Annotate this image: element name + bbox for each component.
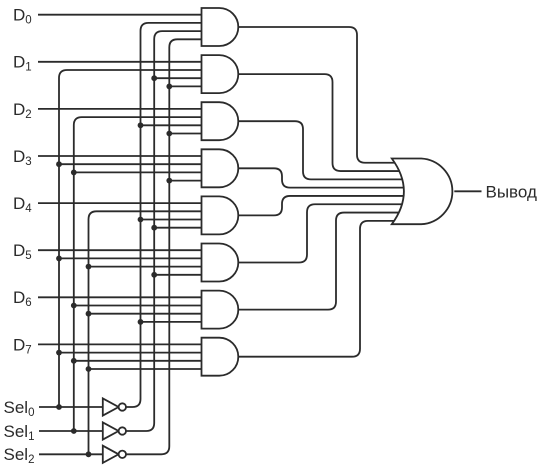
- AND gate U2 (D1 term): [202, 55, 239, 93]
- wire D2 input line: [38, 108, 203, 110]
- wire ~Sel0 branch to AND gate U7 input 4: [141, 321, 204, 323]
- wire Sel1 vertical trunk to top branch: [74, 117, 203, 431]
- junction Sel1 branch to U8: [71, 358, 77, 364]
- OR gate U9: [392, 159, 453, 225]
- AND gate U8 (D7 term): [202, 338, 239, 376]
- wire Sel2 branch to AND gate U8 input 4: [89, 368, 204, 370]
- junction ~Sel0 branch to U3: [138, 122, 144, 128]
- junction Sel0 branch to U8: [56, 350, 62, 356]
- wire ~Sel1 branch to AND gate U5 input 4: [154, 227, 203, 229]
- svg-text:Вывод: Вывод: [486, 182, 537, 201]
- junction Sel2 tap: [86, 451, 92, 457]
- svg-text:D2: D2: [13, 100, 32, 121]
- wire inverted Sel2 (~Sel2) trunk from inverter output to top branch: [126, 39, 203, 454]
- svg-text:Sel2: Sel2: [4, 445, 35, 466]
- junction Sel1 branch to U7: [71, 303, 77, 309]
- junction ~Sel1 branch to U5: [151, 225, 157, 231]
- junction ~Sel2 branch to U3: [166, 131, 172, 137]
- wire AND U7 output to OR input 7: [238, 213, 403, 310]
- wire ~Sel1 branch to AND gate U2 input 3: [154, 77, 203, 79]
- wire D5 input line: [38, 249, 203, 251]
- junction Sel2 branch to U8: [86, 366, 92, 372]
- wire AND U6 output to OR input 6: [238, 204, 403, 262]
- wire Sel0 vertical trunk to top branch: [59, 70, 203, 407]
- svg-text:D3: D3: [13, 147, 32, 168]
- wire Sel0 branch to AND gate U6 input 2: [59, 257, 203, 259]
- wire Sel1 branch to AND gate U7 input 2: [74, 305, 203, 307]
- AND gate U1 (D0 term): [202, 8, 239, 46]
- wire ~Sel2 branch to AND gate U4 input 4: [169, 180, 203, 182]
- wire ~Sel2 branch to AND gate U2 input 4: [169, 85, 203, 87]
- junction ~Sel2 branch to U2: [166, 84, 172, 90]
- wire D6 input line: [38, 296, 203, 298]
- wire AND U1 output to OR input 1: [238, 27, 403, 163]
- AND gate U7 (D6 term): [202, 291, 239, 329]
- wire D7 input line: [38, 343, 203, 345]
- wire OR output to label: [454, 190, 481, 192]
- inverter U12 (NOT Sel2): [103, 446, 126, 463]
- wire Sel1 input line: [39, 430, 104, 432]
- wire Sel2 branch to AND gate U7 input 3: [89, 313, 204, 315]
- junction Sel0 branch to U6: [56, 256, 62, 262]
- junction ~Sel0 branch to U5: [138, 217, 144, 223]
- svg-text:D7: D7: [13, 335, 32, 356]
- wire Sel1 branch to AND gate U8 input 3: [74, 360, 203, 362]
- wire ~Sel2 branch to AND gate U3 input 4: [169, 133, 203, 135]
- wire Sel2 vertical trunk to top branch: [89, 211, 204, 454]
- svg-text:Sel0: Sel0: [4, 398, 35, 419]
- wire Sel0 branch to AND gate U8 input 2: [59, 352, 203, 354]
- wire ~Sel1 branch to AND gate U6 input 4: [154, 274, 203, 276]
- AND gate U4 (D3 term): [202, 149, 239, 187]
- junction Sel2 branch to U6: [86, 264, 92, 270]
- junction ~Sel2 branch to U4: [166, 178, 172, 184]
- wire D0 input line: [38, 14, 203, 16]
- junction ~Sel1 branch to U2: [151, 75, 157, 81]
- AND gate U3 (D2 term): [202, 102, 239, 140]
- junction ~Sel0 branch to U7: [138, 319, 144, 325]
- wire D1 input line: [38, 61, 203, 63]
- wire D4 input line: [38, 202, 203, 204]
- svg-text:D0: D0: [13, 6, 32, 27]
- wire AND U5 output to OR input 5: [238, 196, 403, 215]
- junction ~Sel1 branch to U6: [151, 272, 157, 278]
- wire D3 input line: [38, 155, 203, 157]
- svg-text:D6: D6: [13, 288, 32, 309]
- wire inverted Sel1 (~Sel1) trunk from inverter output to top branch: [126, 31, 203, 431]
- svg-text:Sel1: Sel1: [4, 422, 35, 443]
- junction Sel2 branch to U7: [86, 311, 92, 317]
- wire Sel2 branch to AND gate U6 input 3: [89, 266, 204, 268]
- junction Sel0 branch to U4: [56, 161, 62, 167]
- wire AND U3 output to OR input 3: [238, 121, 403, 179]
- wire ~Sel0 branch to AND gate U3 input 3: [141, 124, 204, 126]
- wire Sel0 input line: [39, 406, 104, 408]
- wire AND U4 output to OR input 4: [238, 168, 403, 187]
- wire Sel0 branch to AND gate U4 input 2: [59, 163, 203, 165]
- junction Sel1 branch to U4: [71, 170, 77, 176]
- wire AND U2 output to OR input 2: [238, 74, 403, 171]
- inverter U10 (NOT Sel0): [103, 398, 126, 415]
- wire Sel1 branch to AND gate U4 input 3: [74, 171, 203, 173]
- wire Sel2 input line: [39, 453, 104, 455]
- svg-text:D5: D5: [13, 241, 32, 262]
- wire ~Sel0 branch to AND gate U5 input 3: [141, 219, 204, 221]
- AND gate U6 (D5 term): [202, 244, 239, 282]
- junction Sel0 tap: [56, 404, 62, 410]
- inverter U11 (NOT Sel1): [103, 422, 126, 439]
- AND gate U5 (D4 term): [202, 196, 239, 234]
- svg-text:D4: D4: [13, 194, 32, 215]
- wire inverted Sel0 (~Sel0) trunk from inverter output to top branch: [126, 23, 203, 407]
- wire AND U8 output to OR input 8: [238, 221, 403, 357]
- junction Sel1 tap: [71, 428, 77, 434]
- svg-text:D1: D1: [13, 53, 32, 74]
